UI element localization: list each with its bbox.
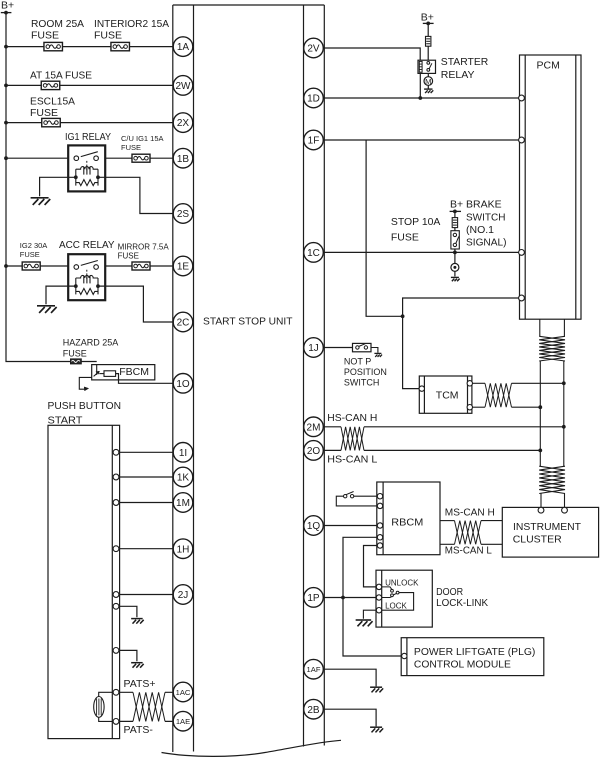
push button start unit box [48,425,120,738]
svg-text:1I: 1I [179,448,187,459]
break wave at bottom of start stop unit [162,740,342,756]
RBCM connector pins [377,494,382,549]
fuse INTERIOR2 15A [94,18,169,51]
svg-text:TCM: TCM [436,389,459,401]
svg-text:1D: 1D [307,94,320,105]
power node B+ (starter) [421,12,434,26]
door lock changeover contact [379,587,399,598]
svg-text:FUSE: FUSE [31,29,59,41]
svg-text:1K: 1K [177,473,190,484]
wire switch loop to RBCM pin 2 [336,496,380,506]
label STARTER RELAY [441,56,489,81]
switch BRAKE SWITCH [451,228,459,253]
svg-text:POSITION: POSITION [344,367,387,377]
svg-text:2V: 2V [307,44,320,55]
ground (1AF) [370,686,382,688]
svg-text:CONTROL MODULE: CONTROL MODULE [414,659,511,671]
svg-text:1F: 1F [308,136,320,147]
start stop unit outline (left connector bar + right connector bar) [173,5,324,752]
ground (push button 2) [131,662,143,664]
label PUSH BUTTON START [48,400,122,427]
fuse ROOM 25A [31,18,84,51]
relay IG1 coil [75,169,77,185]
svg-text:1AC: 1AC [176,688,191,697]
relay IG1 coil terminal dots [74,175,78,179]
svg-text:1O: 1O [176,379,190,390]
svg-text:UNLOCK: UNLOCK [385,578,419,587]
svg-text:FUSE: FUSE [63,348,87,358]
relay ACC box [68,254,105,300]
junction dot brake switch on 1C wire [453,251,457,255]
PATS antenna coil [94,692,113,721]
wire push button pin to 1K [116,476,183,478]
wire pin 1J to not-p switch [323,347,352,349]
wire TCM L to CAN trunk [472,406,540,408]
svg-text:RELAY: RELAY [441,69,475,81]
svg-text:2O: 2O [307,446,321,457]
fuse (starter relay feed) [426,36,431,46]
svg-text:ESCL15A: ESCL15A [30,96,75,108]
harness spring lower [539,466,565,493]
wire MS-CAN L [440,543,502,545]
wire to pin 2X [6,122,183,124]
relay STARTER box [418,60,436,73]
harness neck below PCM [540,319,565,336]
FBCM internal switch and element [94,365,116,377]
svg-text:1H: 1H [177,544,190,555]
wire ACC relay to pin 1E [98,265,183,267]
wire pin 1F to PCM [323,139,521,141]
relay ACC resistor [76,288,98,294]
wire TCM H to CAN trunk [472,382,564,384]
twisted pair HS-CAN [341,427,364,451]
svg-text:PATS-: PATS- [124,724,154,736]
label NOT P POSITION SWITCH [344,356,387,387]
wire push button pin to 2J [116,594,183,596]
svg-text:HS-CAN L: HS-CAN L [327,454,377,466]
wire IG1 relay to pin 1B [98,157,183,159]
wire PCM lower pin to TCM [403,298,522,389]
module DOOR LOCK-LINK box [376,570,432,627]
svg-text:HS-CAN H: HS-CAN H [327,412,377,424]
wire FBCM to pin 1O [116,374,183,384]
wire pin 1Q to RBCM [323,525,380,527]
wire push button pin to ground 2 [116,650,137,661]
wire pin 2B to ground [323,709,376,726]
svg-text:1M: 1M [176,498,190,509]
svg-text:2J: 2J [178,590,189,601]
module POWER LIFTGATE (PLG) CONTROL MODULE box [401,638,544,676]
connector pins on start stop unit right bar [304,38,324,719]
wire pin 1AF to ground [323,669,376,686]
starter motor M [424,73,433,88]
wire LOCK pin to ground [363,610,376,619]
svg-text:AT 15A FUSE: AT 15A FUSE [30,70,92,82]
svg-text:1C: 1C [307,248,320,259]
wire IG1 coil to pin 2S [98,177,183,213]
svg-text:1B: 1B [177,154,190,165]
svg-text:2W: 2W [176,81,192,92]
wire B+ rail to IG1 relay [6,157,75,159]
CAN trunk bar [540,361,564,466]
svg-text:START STOP UNIT: START STOP UNIT [203,316,293,328]
wire pin 1D to PCM [323,97,521,99]
label DOOR LOCK-LINK [436,586,488,609]
wire PATS- to 1AE [113,720,183,722]
junction dot on 1D wire [418,96,422,100]
svg-text:LOCK: LOCK [385,601,407,610]
wire push button pin to 1M [116,502,183,504]
module INSTRUMENT CLUSTER box [502,507,598,557]
wire to pin 2W [6,84,183,86]
svg-text:2M: 2M [307,422,321,433]
wire 2M HS-CAN H [323,426,564,428]
TCM connector pins [419,381,472,410]
svg-text:B+: B+ [1,0,14,12]
svg-text:1J: 1J [308,343,319,354]
connector pins on start stop unit left bar [173,37,193,731]
module PCM box [520,55,582,319]
ground (push button 1) [131,618,143,620]
svg-text:FUSE: FUSE [30,107,58,119]
fuse ESCL 15A [30,96,75,127]
svg-text:PUSH BUTTON: PUSH BUTTON [48,400,122,412]
svg-text:POWER LIFTGATE (PLG): POWER LIFTGATE (PLG) [414,646,536,658]
wire B+ rail vertical [6,13,97,362]
wire to pin 1A [6,46,183,48]
label BRAKE SWITCH (NO.1 SIGNAL) [466,199,507,249]
wire 1F branch down to TCM node [366,140,403,316]
svg-text:STOP 10A: STOP 10A [391,216,441,228]
svg-text:SWITCH: SWITCH [466,211,506,223]
wire door lock common to LOCK pin [379,593,414,611]
wire MS-CAN H [440,520,502,522]
svg-text:RBCM: RBCM [391,517,423,529]
junction dot TCM node [401,314,405,318]
ground connector below brake switch [451,252,459,276]
relay IG1 resistor [76,180,98,186]
twisted pair TCM CAN [485,383,512,407]
starter relay switch [427,62,432,72]
svg-text:FUSE: FUSE [391,231,419,243]
fuse IG2 30A [20,241,48,270]
svg-text:INTERIOR2 15A: INTERIOR2 15A [94,18,169,30]
svg-text:LOCK-LINK: LOCK-LINK [436,597,488,609]
wire RBCM pin4 to 1P net and PLG module [343,537,402,656]
PLG connector pin [402,653,407,658]
ground (starter motor) [424,88,432,90]
svg-text:ACC RELAY: ACC RELAY [59,239,115,251]
power node B+ (brake switch) [450,199,464,214]
relay ACC switch [74,265,79,270]
wire push button pin to 1I [116,451,183,453]
wire PATS+ to 1AC [113,691,183,693]
fuse MIRROR 7.5A [118,242,170,270]
svg-text:INSTRUMENT: INSTRUMENT [513,521,582,533]
harness spring upper [539,336,565,361]
svg-text:MIRROR 7.5A: MIRROR 7.5A [118,242,170,251]
svg-text:ROOM 25A: ROOM 25A [31,18,84,30]
fuse AT 15A [30,70,92,90]
svg-text:IG1 RELAY: IG1 RELAY [65,131,111,143]
svg-text:2B: 2B [307,705,320,716]
svg-text:1E: 1E [177,262,190,273]
svg-text:M: M [425,77,431,86]
door lock connector pins [376,584,381,613]
wire RBCM pin5 to door unlock [364,546,381,587]
svg-text:(NO.1: (NO.1 [466,224,494,236]
svg-text:PCM: PCM [537,60,560,72]
junction dot on 1P wire [341,596,345,600]
fuse C/U IG1 15A [121,134,164,162]
svg-text:FUSE: FUSE [94,29,122,41]
relay ACC coil [75,278,77,294]
instrument cluster connector pins [538,507,567,513]
relay IG1 box [68,145,105,191]
svg-text:NOT P: NOT P [344,356,371,366]
svg-text:2C: 2C [177,318,190,329]
wire 2O HS-CAN L [323,449,540,451]
svg-text:FUSE: FUSE [121,143,141,152]
svg-text:FUSE: FUSE [20,250,40,259]
svg-text:STARTER: STARTER [441,56,489,68]
fuse STOP 10A [452,211,457,227]
svg-text:1A: 1A [177,42,190,53]
svg-text:C/U IG1 15A: C/U IG1 15A [121,134,164,143]
wire fuse to starter relay [427,46,429,60]
junction dots HS-CAN on trunk [538,425,565,452]
svg-text:MS-CAN H: MS-CAN H [445,507,495,519]
svg-text:SWITCH: SWITCH [344,378,380,388]
wire starter relay coil to 1D line [419,73,421,98]
module FBCM box [92,365,155,380]
label STOP 10A FUSE [391,216,441,243]
relay IG1 switch [74,156,79,161]
wire B+ rail to IG2 fuse and ACC relay [6,265,75,267]
svg-text:FUSE: FUSE [118,252,139,261]
svg-text:1Q: 1Q [307,521,321,532]
starter relay coil [419,61,422,72]
wire pin 1C to PCM [323,251,521,253]
harness neck above instrument cluster [541,494,565,508]
svg-text:FBCM: FBCM [119,366,149,378]
svg-text:CLUSTER: CLUSTER [513,533,562,545]
svg-text:HAZARD 25A: HAZARD 25A [63,338,119,348]
svg-text:SIGNAL): SIGNAL) [466,237,507,249]
svg-text:1AE: 1AE [176,717,190,726]
switch on RBCM input [344,492,381,498]
svg-text:PATS+: PATS+ [124,678,156,690]
svg-text:2X: 2X [177,118,190,129]
label POWER LIFTGATE (PLG) CONTROL MODULE [414,646,536,671]
ground (door lock) [356,619,372,621]
svg-text:B+: B+ [421,12,434,24]
module TCM box [419,376,472,413]
wire pin 2V to starter relay coil [323,48,420,60]
wire IG1 coil to ground [40,177,76,196]
svg-text:1AF: 1AF [307,665,321,674]
wire push button pin to ground 1 [116,606,137,617]
wire not-p switch to ground [371,348,378,353]
svg-text:1P: 1P [307,593,320,604]
ground (brake switch) [451,276,459,278]
ground (IG1 relay) [31,197,49,199]
twisted pair PATS [133,692,165,721]
switch NOT P POSITION [353,343,372,351]
wire ACC coil to ground [46,286,76,304]
wire push button pin to 1H [116,548,183,550]
svg-text:START: START [48,415,84,427]
svg-text:2S: 2S [177,209,190,220]
relay ACC coil terminal dots [74,284,78,288]
wire B+ to starter relay fuse [427,23,429,36]
svg-text:BRAKE: BRAKE [466,199,502,211]
twisted pair MS-CAN [455,521,482,545]
junction dots TCM CAN on trunk [538,381,565,409]
push button unit connector pins [113,449,119,724]
svg-text:MS-CAN L: MS-CAN L [445,545,492,557]
label INSTRUMENT CLUSTER [513,521,582,546]
junction dots on B+ rail [4,45,8,268]
module RBCM box [377,482,440,555]
wire ACC coil to pin 2C [98,286,183,322]
fuse HAZARD 25A [63,338,119,364]
ground (2B) [370,726,382,728]
FBCM output stub with arrow [79,377,91,390]
ground (ACC relay) [37,305,55,307]
wire pin 1P to door lock [323,597,376,599]
ground (not p position switch) [374,352,381,354]
PCM connector pins [519,95,525,301]
svg-text:IG2 30A: IG2 30A [20,241,48,250]
power node B+ (top left) [1,0,14,15]
svg-text:B+: B+ [450,199,463,211]
